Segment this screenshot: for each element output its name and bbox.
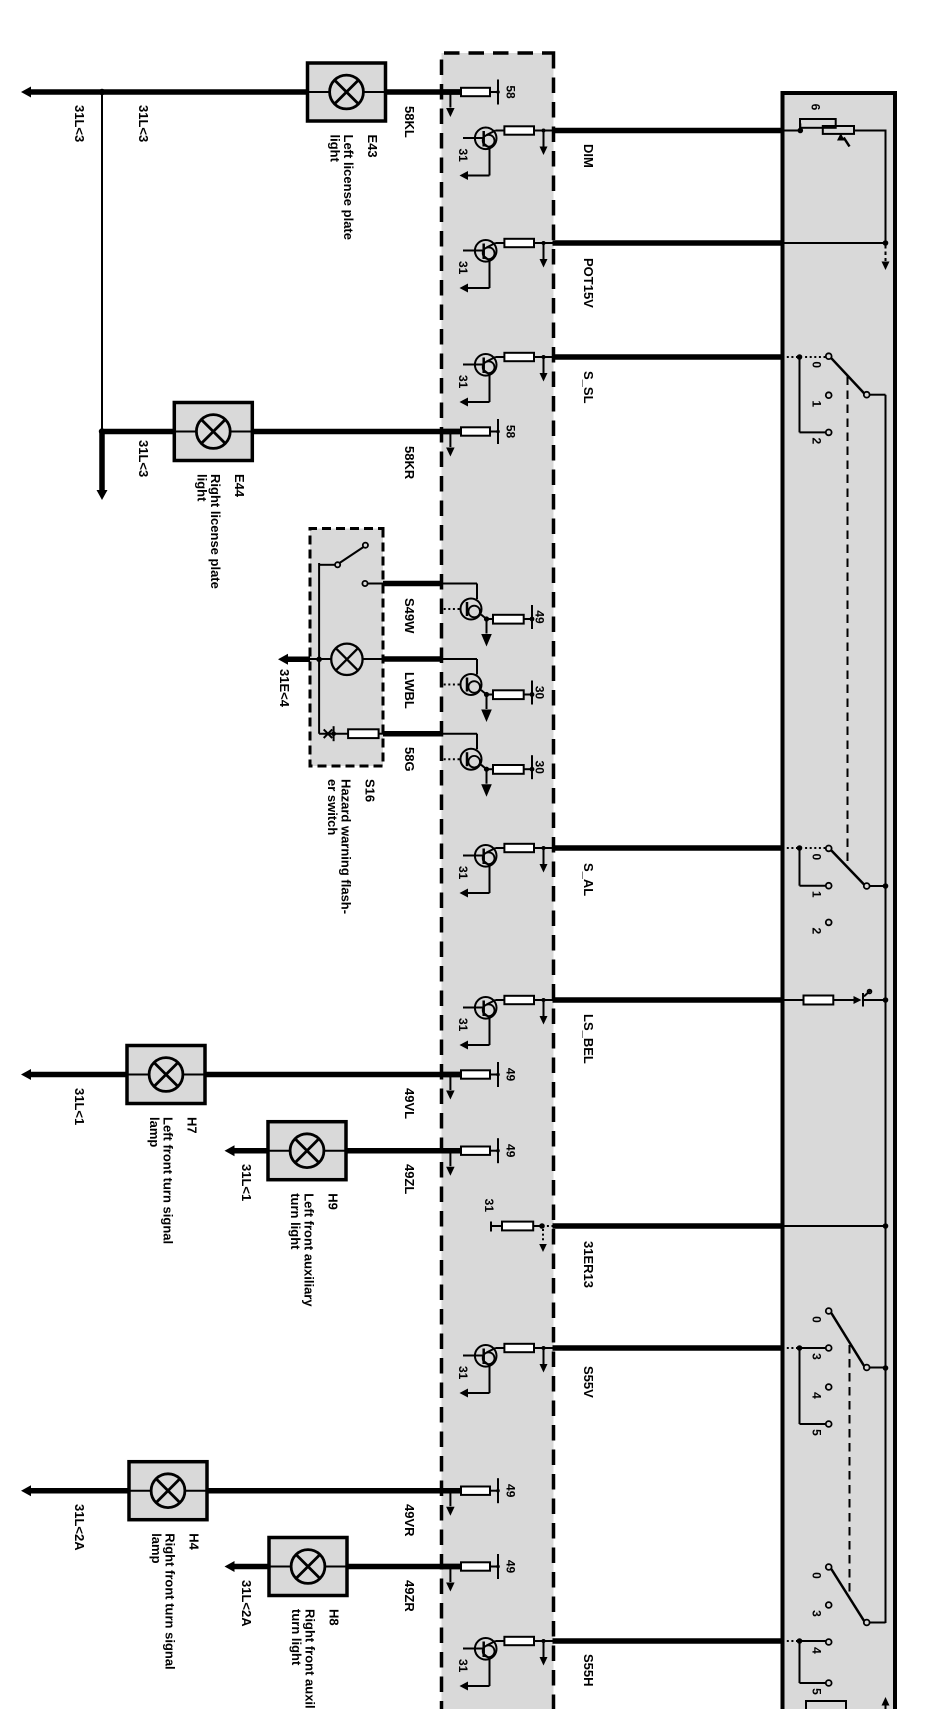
blade tip to bus bbox=[870, 1622, 886, 1624]
svg-text:49: 49 bbox=[504, 1068, 518, 1082]
svg-text:2: 2 bbox=[810, 928, 824, 935]
wire DIM lead inside switch unit bbox=[784, 130, 801, 132]
wire 58G band to S16 bbox=[383, 731, 442, 737]
svg-text:58: 58 bbox=[504, 425, 518, 439]
collector lead to resistor bbox=[487, 618, 494, 620]
base bar bbox=[466, 678, 469, 692]
base lead bbox=[463, 137, 484, 139]
transistor circle bbox=[475, 997, 497, 1019]
base bar bbox=[482, 1001, 485, 1017]
base bar bbox=[482, 358, 485, 374]
link junction to aligned contact bbox=[800, 1347, 826, 1349]
transistor circle bbox=[475, 354, 497, 376]
wire LWBL band to S16 bbox=[383, 656, 442, 662]
svg-text:49: 49 bbox=[504, 1144, 518, 1158]
emitter to ground 31 bbox=[484, 1654, 490, 1659]
collector lead bbox=[496, 1347, 505, 1349]
switch junction node bbox=[797, 845, 803, 851]
wire (thick) from switch unit to control unit at x=1641 bbox=[553, 1638, 784, 1644]
solid L-link to contact bbox=[799, 848, 801, 886]
emitter to ground 31 bbox=[484, 256, 490, 261]
branch arrow right bbox=[543, 1000, 545, 1016]
blade tip contact bbox=[864, 392, 870, 398]
svg-text:S_AL: S_AL bbox=[581, 863, 596, 896]
wire 49ZL band to H9 bbox=[346, 1148, 461, 1154]
wire lead inside band at x=659 bbox=[442, 658, 478, 660]
svg-text:lamp: lamp bbox=[149, 1533, 164, 1563]
collector lead bbox=[496, 242, 505, 244]
svg-text:58KL: 58KL bbox=[402, 106, 417, 138]
thin lead into resistor bbox=[534, 999, 554, 1001]
base lead bbox=[463, 1355, 484, 1357]
branch arrow right at pin 49 bbox=[449, 1075, 451, 1091]
svg-text:31: 31 bbox=[456, 375, 470, 389]
svg-text:6: 6 bbox=[809, 104, 823, 111]
base bar bbox=[482, 244, 485, 260]
svg-text:31L<2A: 31L<2A bbox=[72, 1504, 87, 1551]
mechanical linkage S55V to S55H (dash) bbox=[849, 1345, 851, 1597]
svg-text:light: light bbox=[328, 135, 343, 163]
resistor bbox=[504, 996, 534, 1004]
LS_BEL resistor and contact inside switch unit bbox=[783, 999, 804, 1001]
svg-text:31L<3: 31L<3 bbox=[136, 440, 151, 477]
node on E43 ground wire bbox=[99, 89, 105, 95]
contact 2 bbox=[826, 430, 832, 436]
connector pin rectangle bbox=[442, 1148, 462, 1154]
svg-text:49VL: 49VL bbox=[402, 1088, 417, 1119]
lamp E44 box bbox=[174, 403, 252, 461]
contact 0 bbox=[826, 1308, 832, 1314]
branch arrow right at pin 49 bbox=[449, 1491, 451, 1507]
pin tick bbox=[497, 1062, 499, 1087]
dimmer rheostat 6 bbox=[798, 128, 804, 134]
wire E44 to ground junction bbox=[102, 429, 175, 435]
switch: dotted wire entry bbox=[783, 847, 799, 849]
blade tip to bus bbox=[870, 885, 886, 887]
bus wire segment from dimmer rheostat to POT15V bbox=[885, 131, 887, 244]
link junction to aligned contact bbox=[803, 847, 826, 849]
blade tip contact bbox=[864, 1365, 870, 1371]
collector lead to resistor bbox=[487, 694, 494, 696]
svg-text:1: 1 bbox=[810, 891, 824, 898]
base lead bbox=[463, 855, 484, 857]
svg-text:turn light: turn light bbox=[288, 1193, 303, 1250]
transistor circle bbox=[461, 674, 482, 695]
lamp H4 bulb symbol bbox=[129, 1490, 207, 1492]
wire to ground 31L<3 bbox=[30, 89, 102, 95]
collector lead to resistor bbox=[487, 768, 494, 770]
svg-text:31L<1: 31L<1 bbox=[72, 1088, 87, 1125]
svg-text:30: 30 bbox=[533, 761, 547, 775]
wire H9 to ground bbox=[234, 1148, 270, 1154]
svg-text:H9: H9 bbox=[326, 1193, 341, 1210]
resistor bbox=[504, 126, 534, 134]
branch arrow right bbox=[543, 131, 545, 147]
emitter junction node bbox=[481, 690, 487, 695]
collector lead bbox=[496, 356, 505, 358]
31ER13 riser inside switch unit bbox=[784, 1225, 886, 1227]
svg-text:2: 2 bbox=[810, 438, 824, 445]
pin tick bbox=[497, 1554, 499, 1579]
wire (thick) from switch unit to control unit at x=1348 bbox=[553, 1345, 784, 1351]
svg-text:POT15V: POT15V bbox=[581, 258, 596, 308]
lamp H4 box bbox=[129, 1462, 207, 1520]
blade tip contact bbox=[864, 1620, 870, 1626]
pin tick bbox=[531, 755, 533, 779]
wire 31E to ground bbox=[287, 657, 310, 663]
transistor circle bbox=[461, 599, 482, 620]
solid L-link to contact bbox=[799, 1641, 801, 1683]
blade tip to bus bbox=[870, 1367, 886, 1369]
thin lead into resistor bbox=[534, 130, 554, 132]
svg-text:31L<1: 31L<1 bbox=[239, 1164, 254, 1201]
svg-text:49: 49 bbox=[504, 1484, 518, 1498]
svg-text:E43: E43 bbox=[365, 135, 380, 158]
collector lead bbox=[496, 847, 505, 849]
svg-text:31L<3: 31L<3 bbox=[72, 105, 87, 142]
svg-text:er switch: er switch bbox=[325, 779, 340, 835]
thin lead into resistor bbox=[534, 1640, 554, 1642]
ground continuation arrow 31L<3 bbox=[99, 432, 105, 491]
wire 58KL band to E43 bbox=[386, 89, 462, 95]
contact 2 bbox=[826, 920, 832, 926]
base lead bbox=[463, 1648, 484, 1650]
switch junction node bbox=[797, 1345, 803, 1351]
thin lead into resistor bbox=[534, 1347, 554, 1349]
wire 49ZR band to H8 bbox=[347, 1564, 461, 1570]
svg-text:3: 3 bbox=[810, 1610, 824, 1617]
S16 common rail bbox=[318, 563, 320, 734]
lamp H8 bulb symbol bbox=[269, 1566, 347, 1568]
svg-text:49ZR: 49ZR bbox=[402, 1580, 417, 1612]
bus continuation arrow at right edge bbox=[885, 1705, 887, 1709]
base lead bbox=[463, 1007, 484, 1009]
svg-text:S_SL: S_SL bbox=[581, 371, 596, 404]
contact 3 bbox=[826, 1345, 832, 1351]
svg-text:31: 31 bbox=[456, 1018, 470, 1032]
emitter junction node bbox=[481, 615, 487, 620]
pin tick bbox=[497, 80, 499, 105]
switch unit box (solid border, cut off at right) bbox=[783, 93, 896, 1709]
base bar bbox=[466, 602, 469, 616]
resistor bbox=[504, 353, 534, 361]
thin lead into resistor bbox=[534, 847, 554, 849]
lamp H9 box bbox=[268, 1122, 346, 1180]
contact 1 bbox=[826, 392, 832, 398]
pin tick bbox=[531, 681, 533, 705]
wire POT15V riser inside switch unit bbox=[784, 242, 886, 244]
emitter to ground 31 bbox=[484, 144, 490, 149]
emitter junction node bbox=[481, 765, 487, 770]
contact 0 bbox=[826, 1564, 832, 1570]
blade tip contact bbox=[864, 883, 870, 889]
bus dashed stub with arrow after POT15V node bbox=[885, 245, 887, 261]
wire (thick) from switch unit to control unit at x=130.5 bbox=[553, 128, 784, 134]
svg-text:31ER13: 31ER13 bbox=[581, 1241, 596, 1288]
svg-text:H7: H7 bbox=[185, 1117, 200, 1134]
contact 0 bbox=[826, 846, 832, 852]
svg-text:H4: H4 bbox=[187, 1533, 202, 1550]
mechanical linkage S_SL to S_AL (dash) bbox=[847, 377, 849, 867]
svg-text:31L<2A: 31L<2A bbox=[239, 1580, 254, 1627]
dotted base lead bbox=[444, 758, 460, 760]
branch arrow right at pin 49 bbox=[449, 1567, 451, 1583]
contact 0 bbox=[826, 353, 832, 359]
emitter to ground 31 bbox=[484, 861, 490, 866]
branch arrow right at pin 58 bbox=[449, 432, 451, 448]
resistor bbox=[493, 690, 524, 699]
svg-text:31: 31 bbox=[456, 1659, 470, 1673]
wire H4 to ground bbox=[30, 1488, 129, 1494]
transistor circle bbox=[475, 845, 497, 867]
collector lead bbox=[496, 130, 505, 132]
wire lead inside band at x=733.7 bbox=[442, 733, 478, 735]
pin tick bbox=[497, 1138, 499, 1163]
wire 49VR band to H4 bbox=[207, 1488, 461, 1494]
resistor bbox=[504, 844, 534, 852]
connector pin rectangle bbox=[442, 429, 462, 435]
emitter to ground 31 bbox=[484, 1361, 490, 1366]
wire (thick) from switch unit to control unit at x=243 bbox=[553, 240, 784, 246]
S49W contact inside S16 bbox=[368, 583, 384, 585]
wire 58KR band to E44 bbox=[252, 429, 461, 435]
base bar bbox=[482, 849, 485, 865]
svg-text:S49W: S49W bbox=[402, 598, 417, 634]
switch junction node bbox=[797, 1638, 803, 1644]
row 31ER13: ground feed through band bbox=[553, 1223, 784, 1229]
switch: dotted wire entry bbox=[783, 356, 799, 358]
svg-text:S55H: S55H bbox=[581, 1654, 596, 1687]
branch arrow right bbox=[543, 243, 545, 259]
emitter to ground 31 bbox=[484, 1013, 490, 1018]
svg-text:0: 0 bbox=[810, 1316, 824, 1323]
switch: dotted wire entry bbox=[783, 1640, 799, 1642]
blade tip to bus bbox=[870, 394, 886, 396]
base bar bbox=[482, 1349, 485, 1365]
svg-text:58G: 58G bbox=[402, 747, 417, 772]
branch arrow right bbox=[543, 1348, 545, 1364]
resistor bbox=[493, 615, 524, 624]
node on E44 ground wire bbox=[99, 428, 105, 434]
contact 4 bbox=[826, 1639, 832, 1645]
svg-text:LS_BEL: LS_BEL bbox=[581, 1014, 596, 1064]
connector pin rectangle bbox=[442, 1488, 462, 1494]
switch junction node bbox=[797, 354, 803, 360]
switch blade bbox=[831, 850, 864, 884]
svg-text:31: 31 bbox=[456, 261, 470, 275]
svg-text:4: 4 bbox=[810, 1392, 824, 1399]
contact 4 bbox=[826, 1384, 832, 1390]
solid L-link to contact bbox=[799, 1348, 801, 1424]
S16 indicator lamp bbox=[310, 658, 383, 660]
control unit gray band (dashed border, cut off at right) bbox=[442, 53, 554, 1709]
connector pin rectangle bbox=[442, 1072, 462, 1078]
contact 1 bbox=[826, 883, 832, 889]
connector pin rectangle bbox=[442, 89, 462, 95]
base bar bbox=[482, 131, 485, 147]
lamp H7 box bbox=[127, 1046, 205, 1104]
svg-text:S55V: S55V bbox=[581, 1366, 596, 1398]
base lead bbox=[463, 250, 484, 252]
pin tick bbox=[531, 605, 533, 629]
base bar bbox=[482, 1642, 485, 1658]
wire from rheostat to bus bbox=[854, 130, 887, 132]
svg-text:lamp: lamp bbox=[147, 1117, 162, 1147]
switch: dotted wire entry bbox=[783, 1347, 799, 1349]
link junction to aligned contact bbox=[800, 1640, 826, 1642]
lamp E43 box bbox=[308, 63, 386, 121]
pin tick bbox=[497, 419, 499, 444]
svg-text:31: 31 bbox=[456, 866, 470, 880]
lamp E44 bulb symbol bbox=[174, 431, 252, 433]
svg-text:49: 49 bbox=[504, 1560, 518, 1574]
svg-text:31: 31 bbox=[482, 1199, 496, 1213]
connector pin rectangle bbox=[442, 1564, 462, 1570]
svg-text:E44: E44 bbox=[232, 474, 247, 498]
contact 5 bbox=[826, 1680, 832, 1686]
link junction to aligned contact bbox=[803, 356, 826, 358]
svg-text:DIM: DIM bbox=[581, 144, 596, 168]
S16 resistor branch 58G bbox=[379, 733, 383, 735]
wire 49VL band to H7 bbox=[205, 1072, 461, 1078]
jumper E43 ground to E44 ground bbox=[101, 92, 103, 432]
svg-text:LWBL: LWBL bbox=[402, 672, 417, 709]
svg-text:30: 30 bbox=[533, 686, 547, 700]
emitter to ground 31 bbox=[484, 370, 490, 375]
clip symbol on resistor branch bbox=[324, 729, 333, 738]
transistor circle bbox=[475, 1345, 497, 1367]
lamp E43 bulb symbol bbox=[308, 91, 386, 93]
wire lead inside band at x=583.5 bbox=[442, 583, 478, 585]
svg-text:31E<4: 31E<4 bbox=[277, 669, 292, 708]
wire H7 to ground bbox=[30, 1072, 127, 1078]
dotted base lead bbox=[444, 608, 460, 610]
svg-text:turn light: turn light bbox=[289, 1609, 304, 1666]
transistor circle bbox=[475, 240, 497, 262]
wire (thick) from switch unit to control unit at x=848 bbox=[553, 845, 784, 851]
branch arrow right bbox=[543, 357, 545, 373]
lamp H9 bulb symbol bbox=[268, 1150, 346, 1152]
emitter arrow bbox=[486, 695, 488, 710]
svg-text:S16: S16 bbox=[363, 779, 378, 802]
branch arrow right bbox=[543, 1641, 545, 1657]
svg-text:49VR: 49VR bbox=[402, 1504, 417, 1537]
branch arrow right at pin 58 bbox=[449, 92, 451, 108]
base lead bbox=[463, 364, 484, 366]
lamp H7 bulb symbol bbox=[127, 1074, 205, 1076]
main bus wire across switch unit bbox=[885, 395, 887, 1623]
branch arrow right at pin 49 bbox=[449, 1151, 451, 1167]
resistor bbox=[504, 1344, 534, 1352]
svg-text:5: 5 bbox=[810, 1429, 824, 1436]
lamp H8 box bbox=[269, 1538, 347, 1596]
svg-text:3: 3 bbox=[810, 1353, 824, 1360]
switch blade bbox=[831, 358, 864, 393]
svg-text:58KR: 58KR bbox=[402, 446, 417, 480]
svg-text:58: 58 bbox=[504, 85, 518, 99]
thin lead into resistor bbox=[534, 242, 554, 244]
svg-text:31: 31 bbox=[456, 149, 470, 163]
svg-text:31L<3: 31L<3 bbox=[136, 105, 151, 142]
wire H8 to ground bbox=[234, 1564, 271, 1570]
branch arrow right bbox=[543, 848, 545, 864]
svg-text:1: 1 bbox=[810, 400, 824, 407]
node: POT15V to bus bbox=[883, 240, 889, 246]
wire E43 to ground junction bbox=[102, 89, 308, 95]
S16 switch blade bbox=[363, 543, 368, 548]
hazard warning flasher switch S16 box bbox=[310, 529, 383, 767]
partial resistor row at right edge of switch unit bbox=[806, 1701, 846, 1709]
switch blade bbox=[831, 1313, 864, 1366]
svg-text:0: 0 bbox=[810, 361, 824, 368]
svg-text:5: 5 bbox=[810, 1688, 824, 1695]
contact 3 bbox=[826, 1602, 832, 1608]
thin lead into resistor bbox=[534, 356, 554, 358]
svg-text:H8: H8 bbox=[327, 1609, 342, 1626]
resistor bbox=[493, 765, 524, 774]
dotted base lead bbox=[444, 684, 460, 686]
emitter arrow bbox=[486, 769, 488, 784]
svg-text:31: 31 bbox=[456, 1366, 470, 1380]
wire (thick) from switch unit to control unit at x=1000 bbox=[553, 997, 784, 1003]
svg-text:4: 4 bbox=[810, 1647, 824, 1654]
emitter arrow bbox=[486, 619, 488, 634]
svg-text:49ZL: 49ZL bbox=[402, 1164, 417, 1194]
resistor bbox=[504, 1637, 534, 1645]
svg-text:light: light bbox=[194, 474, 209, 502]
transistor circle bbox=[475, 128, 497, 150]
collector lead bbox=[496, 1640, 505, 1642]
svg-text:0: 0 bbox=[810, 854, 824, 861]
svg-text:0: 0 bbox=[810, 1572, 824, 1579]
switch blade bbox=[831, 1569, 864, 1621]
node rail to lamp bbox=[316, 657, 322, 663]
wire S49W band to S16 bbox=[383, 581, 442, 587]
wire (thick) from switch unit to control unit at x=357 bbox=[553, 354, 784, 360]
transistor circle bbox=[461, 749, 482, 770]
svg-text:49: 49 bbox=[533, 610, 547, 624]
base bar bbox=[466, 752, 469, 766]
pin tick bbox=[497, 1478, 499, 1503]
collector lead bbox=[496, 999, 505, 1001]
solid L-link to contact bbox=[799, 357, 801, 432]
resistor bbox=[504, 239, 534, 247]
transistor circle bbox=[475, 1638, 497, 1660]
contact 5 bbox=[826, 1421, 832, 1427]
